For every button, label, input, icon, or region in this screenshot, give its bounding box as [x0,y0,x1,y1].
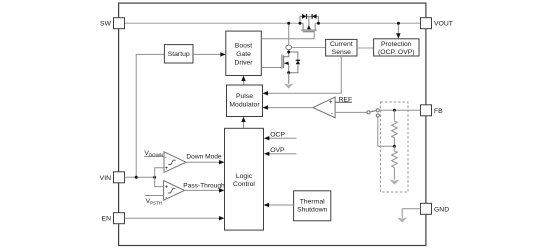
diode D1 body diode [300,14,309,23]
svg-text:FB: FB [434,108,443,115]
body lead with arrow [308,16,310,25]
wire Startup output to Boost Gate Driver [193,53,222,55]
node Q2 source junction [287,71,290,74]
node D1 junction [299,22,302,25]
node SW-lowside junction [287,22,290,25]
block Thermal Shutdown [294,191,331,221]
block Pulse Modulator [227,85,263,117]
comparator Down Mode [164,152,186,173]
svg-text:(OCP. OVP): (OCP. OVP) [378,49,415,56]
wire Q2 source to ground [288,73,290,84]
block Logic Control [225,128,264,230]
node VIN-startup junction [135,176,138,179]
wire sensor to Current Sense block [292,47,326,49]
pin VIN [114,172,125,183]
wire VOUT to Protection [397,23,399,34]
pin SW [114,18,125,29]
svg-text:GND: GND [434,206,449,213]
block Protection (OCP, OVP) [374,39,419,56]
block Current Sense [326,39,357,56]
ground divider [389,180,399,185]
switch S1 FB select [367,109,380,117]
svg-text:-: - [331,111,333,118]
svg-text:-: - [165,196,167,202]
svg-text:Logic: Logic [236,173,253,180]
wire VOUT net (PMOS source to VOUT pin) [315,22,420,24]
wire GND pin to ground [402,209,420,218]
wire Current Sense to Protection [357,47,374,49]
wire Current Sense to Pulse Modulator [264,56,342,93]
wire EN to Logic Control [125,217,221,219]
node REF net label [335,101,352,103]
wire Logic Control to Pulse Modulator [243,118,245,129]
svg-text:Pass-Through: Pass-Through [183,183,225,190]
wire Pulse Modulator to driver [243,77,245,85]
node Q2 drain junction [287,51,290,54]
svg-text:SW: SW [100,21,112,28]
wire switch lower throw to divider tap [378,117,395,146]
wire VIN to Startup [136,54,164,177]
block Boost Gate Driver [226,31,261,75]
wire comparator inverting input to FB switch [335,111,367,113]
svg-text:Pulse: Pulse [236,93,253,100]
svg-text:Down Mode: Down Mode [186,154,222,161]
transistor Q1 high-side switch (PMOS) [301,16,316,31]
wire Pass-Through output to Logic Control [184,189,220,191]
wire SW drop to low-side switch [288,23,290,45]
svg-text:Driver: Driver [234,59,253,66]
drain stub [302,23,304,30]
svg-text:VIN: VIN [100,175,111,182]
node divider tap junction [393,145,396,148]
svg-text:+: + [165,166,169,172]
wire VIN to Down Mode comparator [155,168,164,178]
svg-text:Protection: Protection [381,41,412,48]
node VDOWN net label [144,155,164,157]
node OVP net label [268,153,297,155]
svg-text:REF: REF [339,96,352,103]
node VIN-comparator junction [153,176,156,179]
svg-text:Startup: Startup [168,51,190,58]
svg-text:VOUT: VOUT [434,21,453,28]
channel bar [283,55,285,68]
wire Down Mode output to Logic Control [186,161,220,163]
svg-text:Boost: Boost [235,43,252,50]
pin GND [421,203,432,214]
svg-text:-: - [165,155,167,161]
svg-text:Thermal: Thermal [300,198,325,205]
resistor R2 [393,146,395,151]
node D2 junction [317,22,320,25]
wire driver output to PMOS gate [261,32,314,39]
wire comparator output to Pulse Modulator [264,107,313,109]
wire VIN net [125,176,155,178]
wire Thermal Shutdown to Logic Control [268,204,294,206]
pin VOUT [421,18,432,29]
wire switch to FB pin [379,109,420,111]
gate bar [281,55,283,69]
node OCP net label [268,137,297,139]
svg-text:+: + [165,185,169,191]
op-amp error comparator [313,97,335,118]
node VOUT-protection junction [397,22,400,25]
channel bar [301,29,316,31]
ground power switch [284,83,294,88]
svg-text:+: + [329,99,333,106]
pin EN [114,213,125,224]
IC boundary border [119,3,426,245]
transistor Q2 low-side switch (NMOS) [282,50,289,73]
diode D2 body diode [309,14,319,23]
resistor R1 [393,110,395,120]
current sensor element [286,45,292,50]
svg-text:Gate: Gate [236,51,251,58]
pin FB [421,105,432,116]
drain stub [284,52,289,57]
svg-text:OVP: OVP [270,147,285,154]
wire VIN to Pass-Through comparator [155,177,164,186]
svg-text:Current: Current [330,41,353,48]
node divider top junction [393,109,396,112]
node VPSTH net label [145,195,164,197]
wire SW net (pin to PMOS drain) [125,22,304,24]
gate bar [303,31,315,33]
svg-text:EN: EN [102,216,112,223]
wire driver output to NMOS gate [261,67,281,69]
svg-text:Sense: Sense [332,49,351,56]
svg-text:Shutdown: Shutdown [297,207,327,214]
comparator Pass-Through [164,181,185,202]
svg-text:OCP: OCP [270,131,285,138]
diode D3 body diode [289,52,300,73]
block Startup [164,45,193,63]
source stub [314,23,316,30]
feedback divider dashed enclosure [381,102,409,192]
svg-text:Modulator: Modulator [229,101,260,108]
source stub with arrow [284,63,289,73]
ground GND pin [397,217,407,222]
svg-text:Control: Control [233,181,255,188]
